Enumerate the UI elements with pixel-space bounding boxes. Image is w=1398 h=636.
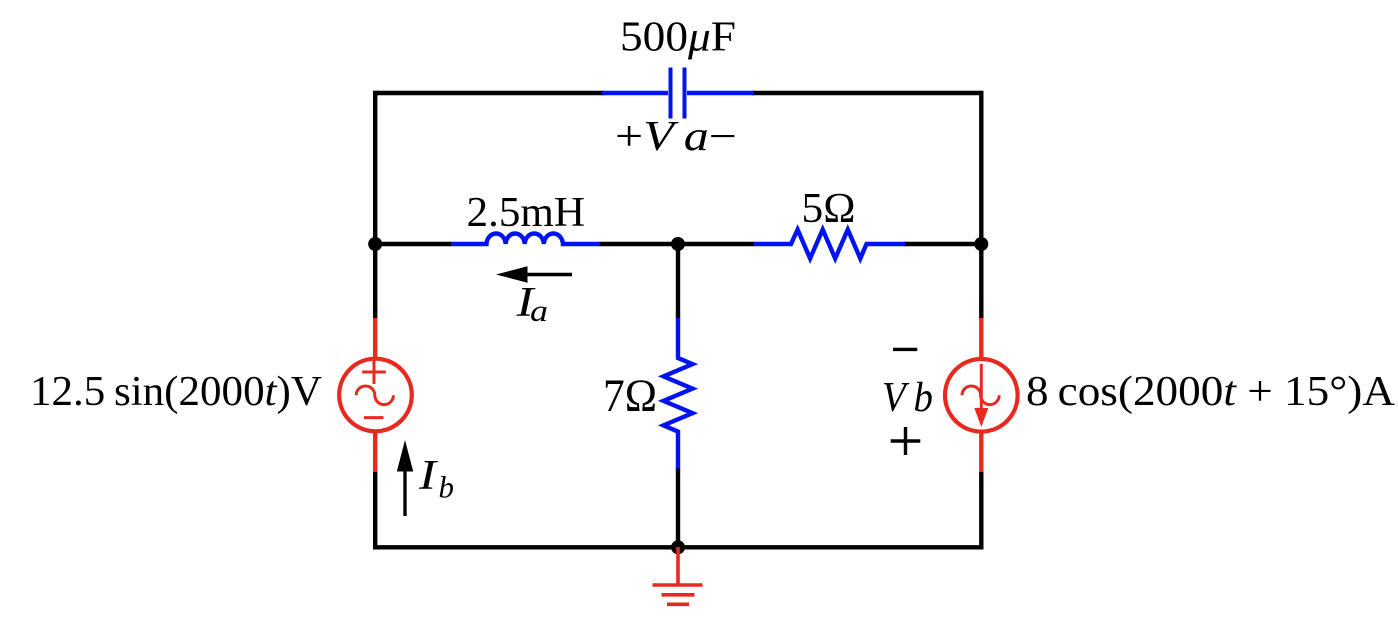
current source I1 circle (945, 359, 1018, 432)
svg-text:b: b (439, 470, 455, 505)
capacitor C1 plates (669, 68, 673, 119)
current arrow Ia (512, 273, 572, 276)
voltage source V1 sine (356, 386, 393, 405)
wire bottom (373, 545, 984, 549)
node G dot (671, 540, 685, 554)
wire center vertical lower (676, 467, 680, 547)
voltage source V1 circle (339, 359, 412, 432)
svg-text:500μF: 500μF (620, 15, 736, 61)
node B dot (671, 237, 685, 251)
svg-text:7Ω: 7Ω (603, 370, 657, 422)
wire right rail lower (979, 472, 983, 549)
ground bar 3 (667, 602, 689, 606)
current source I1 stub bottom (979, 432, 983, 472)
current source I1 stub top (979, 318, 983, 358)
current source I1 sine (962, 386, 999, 405)
wire left rail lower (373, 472, 377, 549)
wire middle left segment (375, 242, 452, 246)
voltage source V1 plus (362, 371, 386, 374)
wire left rail upper (373, 91, 377, 318)
current source I1 arrow (980, 364, 983, 410)
svg-text:a: a (530, 293, 548, 328)
capacitor C1 leads (602, 91, 668, 95)
wire center vertical upper (676, 244, 680, 319)
voltage source V1 stub top (373, 318, 377, 358)
ground stem (676, 547, 680, 585)
ground bar 2 (662, 593, 695, 597)
resistor R1 5ohm (754, 230, 905, 259)
ground bar 1 (653, 583, 703, 587)
svg-text:2.5mH: 2.5mH (467, 190, 586, 236)
voltage label Vb plus (891, 439, 921, 442)
current arrow Ib (403, 468, 406, 516)
voltage source V1 stub bottom (373, 432, 377, 472)
svg-text:+V a−: +V a− (615, 114, 737, 160)
wire top-right segment (752, 91, 981, 95)
resistor R2 7ohm (664, 318, 693, 469)
wire right rail upper (979, 91, 983, 318)
node C dot (974, 237, 988, 251)
node A dot (368, 237, 382, 251)
wire middle right segment (904, 242, 981, 246)
svg-text:12.5 sin(2000t)V: 12.5 sin(2000t)V (30, 369, 322, 415)
voltage source V1 minus (364, 416, 384, 419)
svg-text:8 cos(2000t + 15°)A: 8 cos(2000t + 15°)A (1026, 369, 1396, 415)
inductor L1 (451, 234, 600, 244)
svg-text:V b: V b (882, 375, 933, 421)
svg-text:5Ω: 5Ω (802, 186, 856, 232)
voltage label Vb minus (893, 348, 917, 351)
wire middle center segment (599, 242, 755, 246)
svg-text:I: I (418, 453, 439, 499)
wire top-left segment (375, 91, 604, 95)
